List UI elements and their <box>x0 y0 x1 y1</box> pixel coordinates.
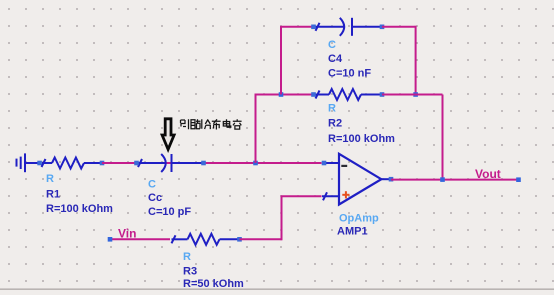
svg-text:Cc: Cc <box>148 192 162 204</box>
node Vout terminal <box>516 177 521 182</box>
wire C4 row right <box>382 26 416 28</box>
svg-text:Vout: Vout <box>475 167 501 181</box>
capacitor Cc <box>138 154 204 172</box>
svg-text:R: R <box>183 251 191 263</box>
node R2 pin 1 <box>311 92 316 97</box>
node Cc pin 1 <box>134 161 139 166</box>
wire right vertical to output <box>442 95 444 180</box>
op-amp plus sign <box>342 191 349 198</box>
svg-text:R=50 kOhm: R=50 kOhm <box>183 278 244 290</box>
svg-text:C: C <box>148 179 156 191</box>
wire output row <box>391 179 519 181</box>
node op-amp minus pin <box>322 161 327 166</box>
svg-text:R2: R2 <box>328 118 342 130</box>
capacitor C4 <box>316 18 383 36</box>
node Cc pin 2 <box>201 161 206 166</box>
node R3 pin 2 <box>237 237 242 242</box>
ground <box>17 153 41 172</box>
wire input row <box>102 162 322 164</box>
wire Vin row right <box>240 238 282 240</box>
wire R2 row right <box>382 94 443 96</box>
node Vin terminal <box>108 237 113 242</box>
svg-text:C: C <box>328 39 336 51</box>
node ground/R1 <box>37 161 42 166</box>
node R1/wire <box>100 161 105 166</box>
svg-text:R: R <box>46 173 54 185</box>
wire plus input horizontal <box>281 195 322 197</box>
wire plus input vertical <box>281 196 283 240</box>
annotation arrow <box>162 119 174 150</box>
svg-text:Vin: Vin <box>118 227 136 241</box>
node C4 pin 2 <box>380 25 385 30</box>
svg-text:R1: R1 <box>46 189 60 201</box>
wire feedback left vertical <box>255 95 257 164</box>
annotation text 引脚分布电容 <box>181 119 242 129</box>
resistor R3 <box>172 234 240 245</box>
node R2 pin 2 <box>380 92 385 97</box>
node C4 right vertical junction <box>413 92 418 97</box>
svg-text:R: R <box>328 103 336 115</box>
svg-text:R=100 kOhm: R=100 kOhm <box>46 203 113 215</box>
wire C4 row left <box>280 26 314 28</box>
op-amp minus sign <box>341 165 347 167</box>
wire C4 right vertical <box>415 26 417 95</box>
wire R2 row left <box>255 94 314 96</box>
node C4 pin 1 <box>311 25 316 30</box>
resistor R1 <box>42 158 103 169</box>
wire C4 left vertical <box>280 27 282 95</box>
node output/feedback junction <box>440 177 445 182</box>
wire Vin row left <box>110 238 170 240</box>
svg-text:C4: C4 <box>328 53 343 65</box>
svg-text:R=100 kOhm: R=100 kOhm <box>328 133 395 145</box>
node junction input/feedback <box>253 161 258 166</box>
svg-text:C=10 nF: C=10 nF <box>328 68 371 80</box>
svg-text:OpAmp: OpAmp <box>339 213 379 225</box>
resistor R2 <box>316 89 383 100</box>
svg-text:C=10 pF: C=10 pF <box>148 206 191 218</box>
op-amp AMP1 <box>322 154 391 205</box>
svg-text:AMP1: AMP1 <box>337 226 368 238</box>
node op-amp output pin <box>389 177 394 182</box>
svg-text:R3: R3 <box>183 266 197 278</box>
node C4 left vertical junction <box>279 92 284 97</box>
